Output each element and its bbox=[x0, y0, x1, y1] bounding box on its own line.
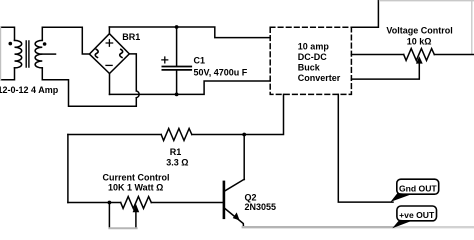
potentiometer VR1 voltage control zigzag bbox=[404, 49, 435, 61]
transformer phase dot right bbox=[43, 42, 47, 46]
+ve OUT bubble tail bbox=[392, 220, 412, 229]
svg-text:2N3055: 2N3055 bbox=[245, 202, 277, 212]
bridge rectifier BR1 diamond bbox=[89, 34, 129, 74]
transistor Q2 emitter arrow bbox=[233, 212, 240, 220]
wire secondary bottom to bridge right vertex bbox=[42, 54, 139, 106]
bridge plus sign bbox=[106, 40, 112, 46]
svg-text:10 kΩ: 10 kΩ bbox=[407, 36, 432, 46]
wire current pot loop bottom (cropped grey) bbox=[109, 227, 136, 229]
wire R1 right to buck bottom stub bbox=[192, 94, 284, 134]
wire ground rail to buck converter bbox=[110, 81, 271, 94]
bridge minus sign bbox=[106, 64, 112, 66]
potentiometer VR2 current control zigzag bbox=[121, 197, 152, 209]
Gnd OUT bubble tail bbox=[391, 193, 412, 202]
current pot wiper arrow shaft bbox=[135, 212, 137, 227]
svg-text:Converter: Converter bbox=[298, 73, 341, 83]
wire secondary center tap stub bbox=[42, 53, 55, 55]
svg-text:Gnd OUT: Gnd OUT bbox=[399, 183, 437, 193]
transistor Q2 emitter lead bbox=[225, 209, 244, 228]
svg-text:12-0-12 4 Amp: 12-0-12 4 Amp bbox=[0, 85, 59, 95]
resistor R1 zigzag bbox=[161, 129, 192, 141]
transformer T1 secondary winding bbox=[35, 40, 42, 68]
wire collector drop bbox=[243, 135, 245, 180]
svg-text:Current Control: Current Control bbox=[103, 172, 170, 182]
svg-text:3.3 Ω: 3.3 Ω bbox=[166, 157, 188, 167]
svg-text:BR1: BR1 bbox=[122, 32, 140, 42]
wire buck to voltage pot bbox=[352, 54, 404, 56]
node junction top of C1 bbox=[175, 25, 179, 29]
transistor Q2 collector lead bbox=[225, 179, 244, 191]
current pot wiper arrow bbox=[133, 204, 140, 212]
capacitor C1 bbox=[176, 27, 178, 94]
bridge tilde left bbox=[95, 49, 98, 58]
wire voltage pot wiper return bbox=[352, 63, 420, 79]
voltage pot wiper arrow bbox=[416, 56, 423, 63]
svg-text:C1: C1 bbox=[194, 56, 206, 66]
svg-text:10K 1 Watt Ω: 10K 1 Watt Ω bbox=[108, 182, 163, 192]
label Gnd OUT bubble bbox=[397, 179, 439, 194]
crop border grey top bbox=[380, 0, 474, 2]
capacitor C1 plates bbox=[162, 67, 191, 70]
svg-text:+ve OUT: +ve OUT bbox=[399, 210, 435, 220]
node junction collector bbox=[242, 133, 246, 137]
svg-text:R1: R1 bbox=[170, 147, 182, 157]
wire gnd from buck bottom stub bbox=[338, 94, 393, 202]
wire current pot to Q2 base bbox=[151, 202, 223, 204]
svg-text:50V, 4700u F: 50V, 4700u F bbox=[194, 67, 248, 77]
wire +ve out (cropped grey) bbox=[243, 226, 395, 228]
wire bridge top stub bbox=[108, 27, 110, 34]
svg-text:DC-DC: DC-DC bbox=[298, 52, 327, 62]
wire primary bottom bbox=[1, 68, 15, 80]
wire top rail to buck converter bbox=[109, 27, 270, 38]
wire primary left edge (cropped) bbox=[0, 27, 2, 80]
wire current pot left bbox=[68, 202, 121, 204]
svg-text:Voltage Control: Voltage Control bbox=[386, 26, 452, 36]
wire current pot left drop bbox=[108, 203, 110, 228]
wire voltage pot to right edge bbox=[434, 54, 474, 56]
wire bridge bottom stub bbox=[109, 74, 111, 95]
wire secondary top to bridge left vertex bbox=[42, 27, 89, 54]
node junction current pot left bbox=[108, 201, 112, 205]
transistor Q2 base bar bbox=[223, 182, 226, 218]
wire R1 left vertical bbox=[67, 135, 69, 203]
transformer core bbox=[26, 41, 29, 67]
node junction bottom of C1 bbox=[175, 93, 179, 97]
buck converter U1 dashed box bbox=[270, 27, 351, 94]
label +ve OUT bubble bbox=[397, 206, 437, 221]
svg-text:Q2: Q2 bbox=[245, 192, 257, 202]
capacitor C1 plus sign bbox=[162, 57, 168, 63]
crop border grey right bbox=[471, 0, 473, 54]
transformer T1 primary winding bbox=[15, 40, 22, 68]
bridge tilde right bbox=[120, 49, 123, 58]
wire primary top bbox=[1, 27, 15, 40]
wire R1 left bbox=[68, 134, 161, 136]
transformer phase dot left bbox=[9, 42, 13, 46]
svg-text:10 amp: 10 amp bbox=[298, 41, 330, 51]
svg-text:Buck: Buck bbox=[298, 62, 321, 72]
wire box top-right corner up off-frame bbox=[351, 0, 378, 27]
